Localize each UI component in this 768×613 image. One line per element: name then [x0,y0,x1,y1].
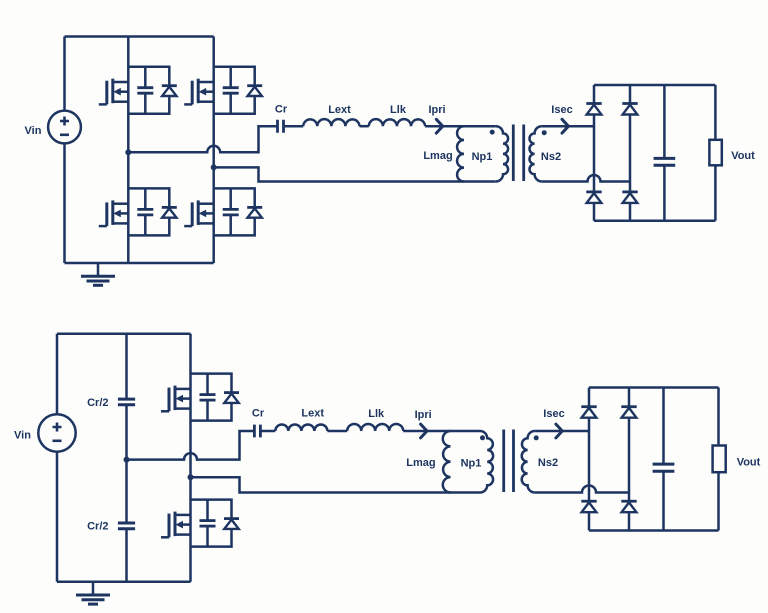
wire Lext to Llk [360,125,369,128]
wire Cr to Lext [284,125,304,128]
phase dot Ns2 [542,130,547,135]
resistor Rload (full-bridge) [709,85,721,221]
wire left rail lower (half-bridge) [56,452,59,582]
voltage source Vin (full-bridge) [48,111,81,144]
diode D6 [586,192,601,203]
wire node D to transformer primary bottom [191,477,481,492]
arrow Isec [562,119,568,133]
wire Lext to Llk (half-bridge) [327,430,347,433]
label Lmag [423,150,452,162]
node D junction dot (switch node) [188,474,194,480]
diode D5 (Q5 body) [224,393,239,403]
wire Llk to transformer primary top (half-bridge) [403,430,480,433]
snubber box Q4 [214,188,255,235]
winding Np1 (primary) [496,126,508,181]
snubber box Q2 [214,67,255,114]
svg-text:Np1: Np1 [461,458,482,470]
svg-text:Cr/2: Cr/2 [87,397,108,409]
inductor Lmag winding (half-bridge) [443,431,451,493]
label Ipri (half-bridge) [415,409,432,421]
ground (full-bridge) [81,263,115,285]
diode D5 [586,104,601,115]
svg-text:Vin: Vin [14,429,31,441]
label Lext (half-bridge) [301,407,324,419]
wire rectifier bottom rail (full-bridge) [594,219,715,222]
capacitor Cr/2 upper [118,399,135,405]
svg-text:Cr: Cr [252,408,265,420]
label Vout (half-bridge) [737,456,761,468]
wire rectifier leg 2 (half-bridge) [628,388,631,531]
svg-text:Vin: Vin [25,125,42,137]
capacitor C3 (Q3 snubber) [137,188,153,235]
phase dot Np1 [490,130,495,135]
transistor Q3 [99,200,129,226]
diode D13 [621,407,636,418]
svg-text:Lmag: Lmag [423,150,452,162]
wire secondary bottom rail (hops over leg) [542,175,630,181]
wire left rail upper (half-bridge) [56,334,59,415]
wire bottom rail (full-bridge) [65,262,214,265]
label Cr/2 lower [87,521,108,533]
svg-text:Llk: Llk [390,104,407,116]
wire node C to Cr (hops over switch leg) [127,431,255,460]
wire rectifier leg 2 [629,85,632,221]
label Isec (half-bridge) [543,408,564,420]
svg-text:Ipri: Ipri [415,409,432,421]
diode D4 (Q4 body) [247,207,262,217]
svg-text:Vout: Vout [737,456,761,468]
diode D11 [581,407,596,418]
snubber box Q3 [128,188,169,235]
svg-text:Lmag: Lmag [406,457,435,469]
wire secondary top rail (half-bridge) [535,430,589,433]
capacitor Cout (half-bridge) [653,388,675,531]
winding Ns2 (secondary) [529,126,541,181]
snubber box Q5 [191,374,232,421]
inductor Llk (full-bridge) [369,119,425,126]
node A junction dot [125,149,131,155]
diode D3 (Q3 body) [162,207,177,217]
transistor Q5 [161,386,191,412]
svg-text:Llk: Llk [368,408,385,420]
transformer core (half-bridge) [504,430,514,493]
diode D14 [621,501,636,512]
arrow Ipri (half-bridge) [421,424,427,438]
resistor Rload (half-bridge) [713,388,726,531]
label Np1 [472,151,493,163]
phase dot Np1 (half-bridge) [480,435,485,440]
wire node A to Cr (hops over right leg) [128,126,277,152]
diode D2 (Q2 body) [247,86,262,96]
diode D8 [622,192,637,203]
label Vout (full-bridge) [731,150,755,162]
wire node B to transformer primary bottom [214,167,496,181]
diode D12 [581,501,596,512]
wire rectifier leg 1 (half-bridge) [588,388,591,531]
transistor Q4 [184,200,214,226]
snubber box Q1 [128,67,169,114]
label Llk [390,104,407,116]
wire left rail upper [63,37,66,111]
inductor Lext (full-bridge) [303,119,359,126]
ground (half-bridge) [76,582,110,604]
inductor Llk (half-bridge) [347,424,403,431]
capacitor C5 (Q5 snubber) [200,374,216,421]
arrow Isec (half-bridge) [556,424,562,438]
label Vin (half-bridge) [14,429,31,441]
label Llk (half-bridge) [368,408,385,420]
svg-text:Lext: Lext [301,407,324,419]
capacitor C1 (Q1 snubber) [137,67,153,114]
wire top rail (full-bridge input) [65,35,214,38]
label Cr/2 upper [87,397,108,409]
label Ns2 [541,151,561,163]
label Lext [328,104,351,116]
diode D7 [622,104,637,115]
svg-text:Ns2: Ns2 [538,457,558,469]
wire Cr to Lext (half-bridge) [260,430,275,433]
svg-text:Vout: Vout [731,150,755,162]
wire rectifier bottom rail (half-bridge) [589,529,719,532]
diode D1 (Q1 body) [162,86,177,96]
transistor Q2 [184,79,214,105]
svg-text:Isec: Isec [543,408,564,420]
inductor Lext (half-bridge) [275,424,327,431]
wire capacitor leg [125,334,128,582]
voltage source Vin (half-bridge) [38,414,75,451]
svg-text:Ipri: Ipri [428,104,445,116]
wire left bridge leg [127,37,130,264]
svg-text:Cr: Cr [275,104,288,116]
wire rectifier top rail (full-bridge) [594,84,715,87]
svg-text:Lext: Lext [328,104,351,116]
phase dot Ns2 (half-bridge) [534,435,539,440]
winding Np1 (half-bridge primary) [480,431,493,493]
wire Llk to transformer primary top [425,125,496,128]
label Cr (half-bridge) [252,408,265,420]
capacitor C2 (Q2 snubber) [223,67,239,114]
winding Ns2 (half-bridge secondary) [522,431,535,493]
diode D6 (Q6 body) [224,519,239,529]
capacitor C6 (Q6 snubber) [200,500,216,547]
capacitor Cr (half-bridge) [254,425,260,438]
capacitor Cr/2 lower [118,523,135,529]
wire right bridge leg [212,37,215,264]
wire left rail lower [63,143,66,263]
wire secondary bottom rail (half-bridge, hops over leg) [535,486,629,493]
label Np1 (half-bridge) [461,458,482,470]
wire top rail (half-bridge input) [57,333,191,336]
wire rectifier top rail (half-bridge) [589,386,719,389]
label Lmag (half-bridge) [406,457,435,469]
svg-text:Isec: Isec [551,104,572,116]
svg-text:Cr/2: Cr/2 [87,521,108,533]
arrow Ipri [436,119,442,133]
label Vin [25,125,42,137]
label Cr [275,104,288,116]
wire rectifier leg 1 [593,85,596,221]
wire secondary top rail [542,125,594,128]
label Ipri [428,104,445,116]
node B junction dot [211,164,217,170]
transistor Q1 [99,79,129,105]
snubber box Q6 [191,500,232,547]
capacitor C4 (Q4 snubber) [223,188,239,235]
inductor Lmag winding (full-bridge) [457,126,464,181]
node C junction dot (capacitor midpoint) [124,457,130,463]
transistor Q6 [161,512,191,538]
label Ns2 (half-bridge) [538,457,558,469]
wire switch leg (half-bridge) [189,334,192,582]
wire bottom rail (half-bridge) [57,581,191,584]
transformer core (full-bridge) [513,125,523,182]
svg-text:Ns2: Ns2 [541,151,561,163]
capacitor Cr (full-bridge) [278,120,284,133]
svg-text:Np1: Np1 [472,151,493,163]
label Isec [551,104,572,116]
capacitor Cout (full-bridge) [654,85,676,221]
